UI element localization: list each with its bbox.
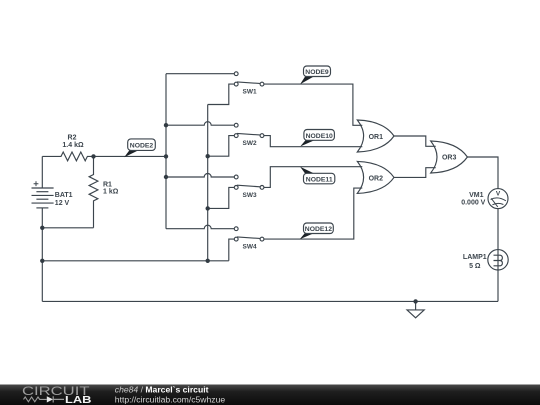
svg-text:BAT1: BAT1 [55,192,73,199]
svg-text:12 V: 12 V [55,200,70,207]
resistor R1 [89,156,98,227]
switch SW4 [166,225,264,261]
wire R1 bottom to battery [42,227,93,229]
wire voltmeter to lamp [497,209,499,250]
or-gate OR3 [431,141,468,173]
wire second bus [207,105,209,261]
svg-text:VM1: VM1 [469,192,484,199]
svg-text:NODE11: NODE11 [306,177,333,184]
CircuitLab logo [22,384,92,405]
svg-text:R2: R2 [68,134,77,141]
svg-text:NODE9: NODE9 [305,69,329,76]
wire OR3 output to voltmeter [467,157,498,189]
svg-text:0.000 V: 0.000 V [461,200,485,207]
wire SW2 output to OR1 bottom input [264,136,362,147]
svg-text:OR2: OR2 [369,175,384,182]
node label NODE11 [300,167,335,184]
svg-text:SW1: SW1 [243,89,257,96]
svg-text:R1: R1 [103,182,112,189]
wire left bus [165,74,167,229]
switch SW2 [166,122,264,156]
node label NODE2 [124,139,155,157]
svg-text:SW4: SW4 [243,244,257,251]
svg-text:LAMP1: LAMP1 [463,254,487,261]
svg-text:NODE12: NODE12 [305,226,332,233]
or-gate OR1 [357,120,394,152]
svg-text:V: V [496,190,501,197]
wire SW4 output to OR2 bottom input [264,188,362,239]
resistor R2 [42,152,93,161]
svg-text:SW3: SW3 [243,192,257,199]
switch SW1 [166,72,264,105]
wire bottom rail [42,300,498,302]
svg-text:1.4 kΩ: 1.4 kΩ [62,142,84,149]
svg-text:1 kΩ: 1 kΩ [103,189,119,196]
svg-text:OR1: OR1 [369,134,384,141]
wire lamp to bottom rail [497,270,499,302]
wire OR2 output to OR3 bottom input [394,168,436,178]
node label NODE10 [300,130,334,147]
wire common return y=260.8 [42,260,229,262]
wire NODE2 row to left bus [94,155,167,157]
svg-text:http://circuitlab.com/c5whzue: http://circuitlab.com/c5whzue [115,395,226,405]
svg-text:5 Ω: 5 Ω [469,263,481,270]
node label NODE12 [300,223,334,239]
wire SW1 output to OR1 top input [264,84,362,125]
or-gate OR2 [357,161,394,193]
voltmeter VM1 [488,189,508,209]
battery BAT1 [32,156,54,301]
svg-text:NODE2: NODE2 [130,142,154,149]
ground [407,301,424,317]
footer bar [0,385,540,405]
svg-text:LAB: LAB [65,394,92,405]
footer text [115,385,226,405]
svg-text:NODE10: NODE10 [306,133,333,140]
svg-text:SW2: SW2 [243,140,257,147]
switch SW3 [166,174,264,209]
svg-text:che84 / Marcel`s circuit: che84 / Marcel`s circuit [115,385,209,395]
node label NODE9 [300,66,330,84]
svg-text:OR3: OR3 [442,155,457,162]
wire SW3 output to OR2 top input [264,167,362,188]
lamp LAMP1 [488,250,508,270]
wire OR1 output to OR3 top input [394,136,436,146]
